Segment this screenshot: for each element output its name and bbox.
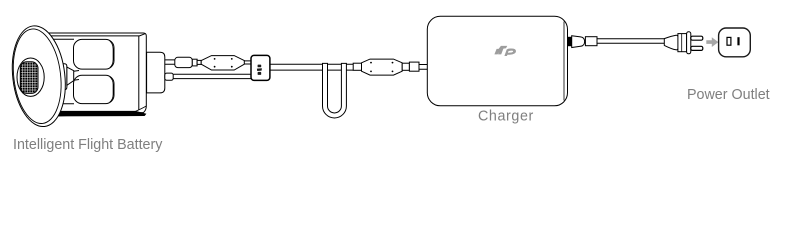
button shaft barrel xyxy=(57,64,67,90)
AC inlet plug shell xyxy=(585,37,597,46)
main cable from box to charger xyxy=(270,64,353,70)
battery body xyxy=(45,33,146,116)
splitter box U1 xyxy=(251,55,270,80)
AC plug body line xyxy=(681,34,683,52)
splitter box dji mark xyxy=(257,65,262,75)
battery right inner line xyxy=(138,36,140,111)
AC plug flange xyxy=(687,32,691,54)
upper wire from cap xyxy=(165,60,175,64)
lower cable stub xyxy=(165,73,173,80)
battery bottom cutout inner edge xyxy=(110,77,113,102)
button shaft lower wire xyxy=(74,79,79,82)
logo glyph i loop xyxy=(504,48,516,56)
battery top cutout inner edge xyxy=(110,41,113,68)
logo glyph j xyxy=(498,46,507,55)
ferrite octagon 1 xyxy=(201,56,244,70)
battery bottom band top contour xyxy=(136,106,147,111)
battery bottom black band xyxy=(47,111,146,117)
button grid pad xyxy=(20,62,38,94)
connector neck 1 xyxy=(192,59,197,66)
outlet slot right xyxy=(737,37,739,45)
AC plug strain relief xyxy=(664,35,678,50)
AC inlet cone xyxy=(572,36,585,48)
battery top face ridge line xyxy=(51,38,74,40)
AC plug prong 1 xyxy=(691,36,703,40)
charger body xyxy=(427,16,567,106)
AC inlet black piece xyxy=(568,37,572,46)
power outlet xyxy=(719,28,751,57)
insert arrow xyxy=(706,37,718,47)
outlet slot left xyxy=(727,37,731,45)
ferrite octagon 2 xyxy=(362,59,403,75)
svg-text:Intelligent Flight Battery: Intelligent Flight Battery xyxy=(13,137,163,153)
connector after ferrite 2 xyxy=(402,63,409,70)
battery bottom face ridge line xyxy=(50,103,74,105)
battery charging-port cap xyxy=(147,52,165,93)
charger dji logo xyxy=(494,46,516,56)
battery top inner line xyxy=(47,34,145,36)
AC cable xyxy=(597,39,664,43)
octagon 2 screw dots xyxy=(370,62,393,73)
battery front face outer ellipse xyxy=(7,23,70,130)
lower cable to box xyxy=(173,74,251,78)
charger right inner line xyxy=(563,22,565,101)
charger DC plug xyxy=(409,62,419,71)
connector neck 2 xyxy=(197,60,201,64)
svg-text:Power Outlet: Power Outlet xyxy=(687,87,770,103)
connector before ferrite 2 xyxy=(353,63,361,70)
button shaft cone xyxy=(67,67,74,85)
logo glyph d xyxy=(494,49,499,55)
svg-text:Charger: Charger xyxy=(478,109,534,125)
button shaft upper wire xyxy=(74,70,79,73)
octagon 1 screw dots xyxy=(214,58,233,68)
battery top cutout bar xyxy=(74,39,115,69)
wire octagon1 to box xyxy=(244,61,251,64)
AC plug body xyxy=(678,34,687,52)
battery front face inner rim xyxy=(8,26,65,126)
cable strap hook xyxy=(323,63,347,118)
AC plug prong 2 xyxy=(691,46,703,50)
battery bottom cutout bar xyxy=(74,75,115,103)
barrel connector xyxy=(175,57,193,67)
stub into charger xyxy=(419,65,428,70)
button bezel ring xyxy=(17,58,44,96)
